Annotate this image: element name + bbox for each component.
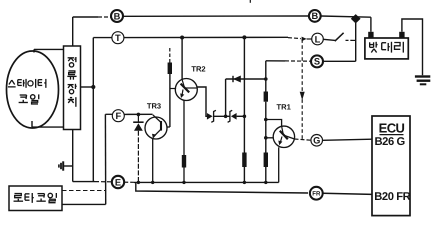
svg-text:TR2: TR2 <box>191 64 205 73</box>
svg-text:F: F <box>115 111 121 121</box>
svg-text:B26 G: B26 G <box>375 136 406 148</box>
svg-text:B: B <box>114 11 121 21</box>
svg-text:T: T <box>115 33 121 43</box>
svg-text:G: G <box>313 136 320 146</box>
svg-text:ECU: ECU <box>379 121 405 136</box>
svg-text:B: B <box>311 11 318 21</box>
svg-text:TR1: TR1 <box>277 102 292 111</box>
svg-text:L: L <box>315 34 321 44</box>
svg-text:B20 FR: B20 FR <box>374 191 410 203</box>
svg-text:TR3: TR3 <box>147 102 161 111</box>
svg-text:E: E <box>115 177 121 187</box>
svg-text:FR: FR <box>312 190 321 197</box>
svg-text:S: S <box>314 57 320 67</box>
